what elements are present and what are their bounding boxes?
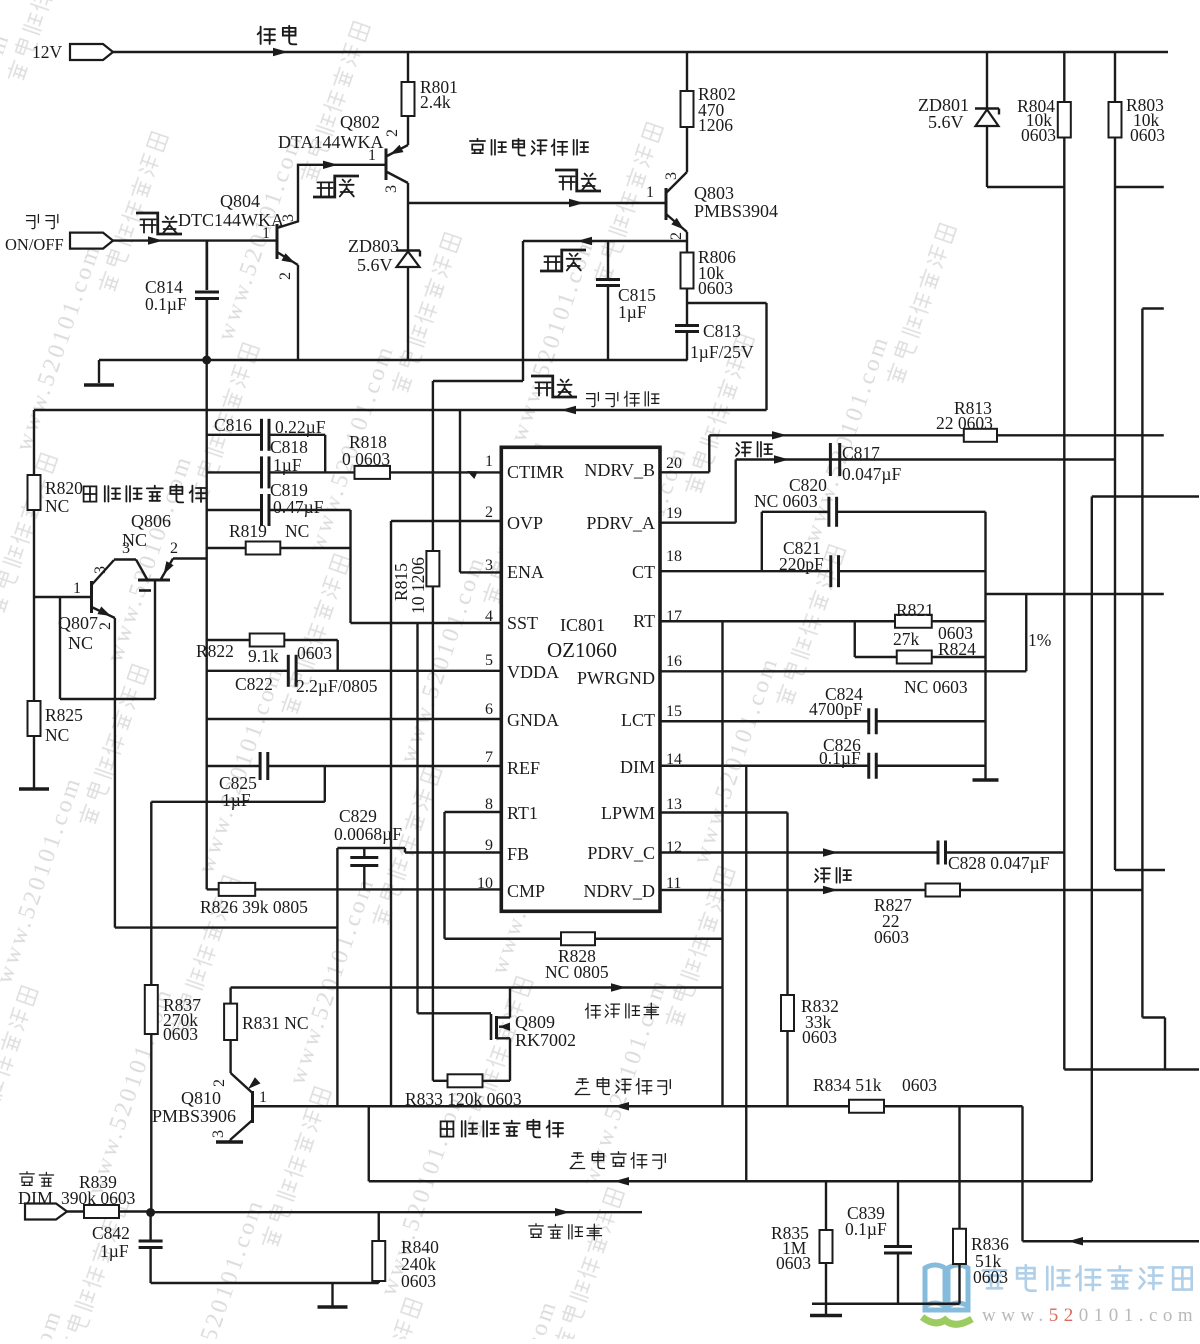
label 自动稳定电路 lower bbox=[441, 1120, 563, 1138]
resistor R832 bbox=[781, 995, 794, 1031]
svg-text:4700pF: 4700pF bbox=[809, 699, 863, 719]
svg-text:LCT: LCT bbox=[621, 710, 655, 730]
svg-text:0.1µF: 0.1µF bbox=[819, 748, 861, 768]
resistor R835 bbox=[825, 1181, 827, 1230]
svg-text:R824: R824 bbox=[938, 639, 976, 659]
svg-text:Q807: Q807 bbox=[58, 613, 98, 633]
label 激励 top bbox=[736, 442, 772, 457]
svg-text:NC: NC bbox=[45, 496, 69, 516]
svg-text:12V: 12V bbox=[32, 42, 63, 62]
wire RT1 pin8 loop bbox=[445, 811, 502, 813]
wire ON/OFF to Q804 base bbox=[112, 239, 277, 241]
svg-text:Q802: Q802 bbox=[340, 112, 380, 132]
node 点灯 ON/OFF input bbox=[27, 215, 58, 229]
svg-text:RT1: RT1 bbox=[507, 803, 538, 823]
svg-text:NC 0805: NC 0805 bbox=[545, 962, 609, 982]
svg-text:2: 2 bbox=[384, 129, 401, 137]
label 过电流保护 bbox=[575, 1078, 670, 1095]
label 自动稳定电路 upper bbox=[84, 485, 206, 503]
resistor R813 bbox=[964, 429, 997, 442]
wire 点灯控制 line bbox=[460, 409, 767, 411]
wire OCP right drop bbox=[1021, 1106, 1023, 1241]
svg-text:10 1206: 10 1206 bbox=[408, 557, 428, 614]
resistor R802 bbox=[686, 52, 688, 172]
wire PDRV_C pin12 bbox=[660, 851, 937, 853]
svg-text:15: 15 bbox=[666, 703, 682, 720]
svg-text:PDRV_A: PDRV_A bbox=[586, 513, 655, 533]
wire SST pin4 bbox=[351, 622, 502, 624]
watermark pattern bbox=[0, 0, 957, 1344]
resistor R833 bbox=[433, 1080, 448, 1082]
svg-text:3: 3 bbox=[122, 540, 130, 557]
wire DIM pin14 bbox=[660, 765, 868, 767]
svg-text:0603: 0603 bbox=[401, 1271, 436, 1291]
wire 振荡调整 line bbox=[231, 986, 723, 988]
svg-text:1µF/25V: 1µF/25V bbox=[690, 342, 754, 362]
ground symbol bottom bbox=[810, 1314, 842, 1318]
svg-text:NC 0603: NC 0603 bbox=[754, 491, 818, 511]
wire 亮度调整 line bbox=[151, 1211, 642, 1213]
resistor R828 bbox=[561, 932, 595, 945]
resistor R840 bbox=[378, 1212, 380, 1241]
wire 12V supply rail bbox=[112, 51, 1168, 53]
wire rail x1115 corner bbox=[1115, 869, 1165, 871]
svg-text:1%: 1% bbox=[1028, 630, 1051, 650]
svg-text:Q803: Q803 bbox=[694, 183, 734, 203]
wire LPWM pin13 drop bbox=[660, 811, 788, 813]
svg-text:NDRV_B: NDRV_B bbox=[584, 460, 655, 480]
wire VDDA pin5 bbox=[207, 670, 287, 672]
svg-text:CT: CT bbox=[632, 562, 655, 582]
svg-text:PWRGND: PWRGND bbox=[577, 668, 655, 688]
svg-text:5.6V: 5.6V bbox=[357, 255, 393, 275]
resistor R834 bbox=[849, 1100, 884, 1113]
svg-text:20: 20 bbox=[666, 455, 682, 472]
svg-text:18: 18 bbox=[666, 548, 682, 565]
svg-text:0.047µF: 0.047µF bbox=[842, 464, 901, 484]
svg-text:PDRV_C: PDRV_C bbox=[587, 843, 655, 863]
wire NDRV_B pin20 bbox=[660, 471, 709, 473]
svg-text:C829: C829 bbox=[339, 806, 377, 826]
svg-text:0603: 0603 bbox=[1021, 125, 1056, 145]
svg-text:22 0603: 22 0603 bbox=[936, 413, 993, 433]
svg-text:1µF: 1µF bbox=[100, 1241, 129, 1261]
svg-text:C822: C822 bbox=[235, 674, 273, 694]
node 亮度 DIM input bbox=[20, 1172, 54, 1186]
wire OVP pin2 drop bbox=[391, 520, 501, 522]
IC U801 box OZ1060 bbox=[501, 447, 660, 911]
wire bottom bus bbox=[812, 1303, 960, 1305]
resistor R804 bbox=[1063, 52, 1065, 1070]
wire bottom-left bus bbox=[151, 1282, 379, 1284]
svg-text:ZD803: ZD803 bbox=[348, 236, 399, 256]
svg-text:C817: C817 bbox=[842, 443, 880, 463]
label 点灯控制 bbox=[587, 391, 659, 406]
wire CT pin18 bbox=[660, 570, 830, 572]
svg-text:R821: R821 bbox=[896, 600, 934, 620]
svg-text:C828 0.047µF: C828 0.047µF bbox=[948, 853, 1050, 873]
svg-text:220pF: 220pF bbox=[779, 554, 824, 574]
svg-text:OZ1060: OZ1060 bbox=[547, 638, 617, 662]
svg-text:3: 3 bbox=[383, 185, 400, 193]
svg-text:1: 1 bbox=[368, 147, 376, 164]
svg-text:R826 39k 0805: R826 39k 0805 bbox=[200, 897, 308, 917]
wire Q807 box bottom bbox=[60, 698, 155, 700]
svg-text:0603: 0603 bbox=[874, 927, 909, 947]
svg-text:R831 NC: R831 NC bbox=[242, 1013, 309, 1033]
wire left rail x207 bbox=[205, 241, 207, 290]
svg-text:R822: R822 bbox=[196, 641, 234, 661]
svg-text:OVP: OVP bbox=[507, 513, 543, 533]
capacitor C828 bbox=[937, 841, 940, 865]
svg-text:Q804: Q804 bbox=[220, 191, 260, 211]
wire rail x1091 bbox=[1092, 495, 1199, 497]
wire R806 to C813 branch bbox=[686, 289, 688, 304]
ground symbol R840 bbox=[331, 1283, 333, 1306]
svg-text:C816: C816 bbox=[214, 415, 252, 435]
svg-text:0603: 0603 bbox=[1130, 125, 1165, 145]
svg-text:Q810: Q810 bbox=[181, 1088, 221, 1108]
svg-text:NC: NC bbox=[68, 633, 93, 653]
svg-text:9.1k: 9.1k bbox=[248, 646, 279, 666]
svg-text:10: 10 bbox=[477, 875, 493, 892]
wire FB pin9 bbox=[405, 851, 501, 853]
resistor R831 bbox=[229, 988, 231, 1004]
wire Q802 collector to Q803 base bbox=[408, 202, 666, 204]
svg-text:3: 3 bbox=[210, 1130, 227, 1138]
svg-text:3: 3 bbox=[280, 214, 297, 222]
svg-text:27k: 27k bbox=[893, 629, 920, 649]
svg-text:R834 51k: R834 51k bbox=[813, 1075, 882, 1095]
svg-text:2: 2 bbox=[211, 1079, 228, 1087]
capacitor C817 bbox=[829, 443, 832, 476]
resistor R827 bbox=[926, 884, 961, 897]
wire GNDA pin6 bbox=[207, 718, 501, 720]
svg-text:1µF: 1µF bbox=[618, 302, 647, 322]
svg-text:3: 3 bbox=[485, 557, 493, 574]
svg-text:0603: 0603 bbox=[973, 1267, 1008, 1287]
wire Q804 collector to Q802 base bbox=[277, 165, 386, 228]
svg-text:RT: RT bbox=[633, 611, 655, 631]
resistor R837 bbox=[150, 802, 152, 985]
svg-text:C818: C818 bbox=[270, 437, 308, 457]
wire RT pin17 bbox=[660, 620, 895, 622]
svg-text:DIM: DIM bbox=[620, 757, 655, 777]
resistor R820 bbox=[33, 410, 35, 475]
svg-text:C813: C813 bbox=[703, 321, 741, 341]
svg-text:2.4k: 2.4k bbox=[420, 92, 451, 112]
svg-text:1: 1 bbox=[259, 1089, 267, 1106]
svg-text:1: 1 bbox=[485, 453, 493, 470]
svg-text:FB: FB bbox=[507, 844, 529, 864]
svg-text:1206: 1206 bbox=[698, 115, 733, 135]
wire right rail corner to edge bbox=[1064, 1068, 1199, 1070]
svg-text:VDDA: VDDA bbox=[507, 662, 559, 682]
svg-text:C842: C842 bbox=[92, 1223, 130, 1243]
svg-text:2: 2 bbox=[668, 232, 685, 240]
label 振荡调整 bbox=[585, 1003, 658, 1019]
svg-text:0.1µF: 0.1µF bbox=[145, 294, 187, 314]
label 开关 falling at 点灯控制 bbox=[535, 380, 571, 397]
svg-text:NDRV_D: NDRV_D bbox=[583, 881, 655, 901]
svg-text:2: 2 bbox=[170, 540, 178, 557]
wire ground rail y360 bbox=[99, 359, 688, 361]
wire right stub y308 bbox=[1142, 307, 1163, 309]
resistor R839 bbox=[67, 1210, 84, 1212]
wire R803 lower stub bbox=[1115, 186, 1164, 188]
svg-text:PMBS3904: PMBS3904 bbox=[694, 201, 778, 221]
svg-text:Q809: Q809 bbox=[515, 1012, 555, 1032]
svg-text:RK7002: RK7002 bbox=[515, 1030, 576, 1050]
svg-text:16: 16 bbox=[666, 653, 682, 670]
svg-text:19: 19 bbox=[666, 505, 682, 522]
ground symbol left-bottom bbox=[19, 787, 49, 791]
svg-text:NC 0603: NC 0603 bbox=[904, 677, 968, 697]
resistor R803 bbox=[1114, 52, 1116, 870]
wire NDRV_D pin11 bbox=[660, 889, 925, 891]
svg-text:7: 7 bbox=[485, 749, 493, 766]
svg-text:Q806: Q806 bbox=[131, 511, 171, 531]
label 开关 falling near input bbox=[140, 217, 176, 234]
svg-text:0603: 0603 bbox=[776, 1253, 811, 1273]
svg-text:6: 6 bbox=[485, 701, 493, 718]
svg-text:2.2µF/0805: 2.2µF/0805 bbox=[296, 676, 378, 696]
logo 家电维修资料网 blue bbox=[983, 1265, 1192, 1291]
svg-text:0.1µF: 0.1µF bbox=[845, 1219, 887, 1239]
svg-text:SST: SST bbox=[507, 613, 538, 633]
wire right bus vert x985 bbox=[984, 512, 986, 779]
wire switched supply y241 bbox=[523, 240, 687, 242]
label 激励 bottom bbox=[815, 868, 851, 883]
svg-text:5.6V: 5.6V bbox=[928, 112, 964, 132]
wire y410 to ENA bbox=[34, 409, 460, 411]
label 开关 rising near Q802 bbox=[317, 180, 353, 197]
svg-text:REF: REF bbox=[507, 758, 540, 778]
svg-text:LPWM: LPWM bbox=[601, 803, 655, 823]
label 过电压保护 bbox=[570, 1152, 665, 1169]
wire RT long drop bbox=[721, 621, 723, 1106]
resistor R815 with feed bbox=[433, 380, 523, 382]
svg-text:IC801: IC801 bbox=[560, 615, 605, 635]
svg-text:2: 2 bbox=[485, 504, 493, 521]
svg-text:0603: 0603 bbox=[163, 1024, 198, 1044]
svg-text:9: 9 bbox=[485, 837, 493, 854]
resistor R826 on CMP bbox=[207, 888, 219, 890]
svg-text:8: 8 bbox=[485, 796, 493, 813]
wire LCT pin15 bbox=[660, 720, 868, 722]
svg-text:13: 13 bbox=[666, 796, 682, 813]
svg-text:2: 2 bbox=[277, 272, 294, 280]
svg-text:ENA: ENA bbox=[507, 562, 544, 582]
label 供电 bbox=[258, 26, 297, 44]
label 启动电源控制 bbox=[470, 139, 588, 156]
wire 过电压保护 line bbox=[369, 1180, 1092, 1182]
ground symbol x985 bbox=[973, 778, 999, 782]
resistor R801 bbox=[407, 52, 409, 145]
svg-text:PMBS3906: PMBS3906 bbox=[152, 1106, 236, 1126]
svg-text:NC: NC bbox=[285, 521, 309, 541]
svg-text:GNDA: GNDA bbox=[507, 710, 559, 730]
svg-text:0603: 0603 bbox=[802, 1027, 837, 1047]
wire R813 drive line bbox=[709, 434, 1164, 436]
svg-text:1µF: 1µF bbox=[222, 790, 251, 810]
svg-text:CMP: CMP bbox=[507, 881, 545, 901]
svg-text:1: 1 bbox=[646, 184, 654, 201]
junction ground node bbox=[202, 356, 211, 365]
svg-text:R825: R825 bbox=[45, 705, 83, 725]
svg-text:2: 2 bbox=[97, 622, 114, 630]
svg-text:ON/OFF: ON/OFF bbox=[5, 235, 64, 254]
label 开关 rising at C815 bbox=[544, 254, 580, 271]
wire PDRV_A pin19 bbox=[660, 522, 736, 524]
svg-text:NC: NC bbox=[45, 725, 69, 745]
wire Q807 base bbox=[34, 596, 92, 598]
svg-text:0603: 0603 bbox=[902, 1075, 937, 1095]
ground symbol Q810 bbox=[216, 1140, 243, 1144]
label 开关 falling mid bbox=[559, 174, 595, 191]
resistor R821 bbox=[895, 615, 932, 628]
svg-text:3: 3 bbox=[663, 172, 680, 180]
resistor R806 bbox=[681, 253, 694, 289]
label 亮度调整 bbox=[529, 1224, 602, 1240]
wire REF tee down to R837 line bbox=[324, 766, 326, 802]
svg-text:4: 4 bbox=[485, 608, 493, 625]
svg-text:5: 5 bbox=[485, 652, 493, 669]
junction DIM node bbox=[146, 1208, 155, 1217]
wire y594 branch bbox=[986, 593, 1164, 595]
svg-text:CTIMR: CTIMR bbox=[507, 462, 564, 482]
svg-text:0603: 0603 bbox=[698, 278, 733, 298]
wire Q807 emitter long drop bbox=[114, 699, 116, 928]
svg-text:0.47µF: 0.47µF bbox=[273, 497, 324, 517]
svg-text:R820: R820 bbox=[45, 478, 83, 498]
wire PWRGND pin16 bbox=[660, 670, 1026, 672]
resistor R825 bbox=[28, 701, 41, 736]
ground symbol left-top bbox=[84, 383, 114, 387]
svg-text:0603: 0603 bbox=[297, 643, 332, 663]
svg-text:1: 1 bbox=[73, 580, 81, 597]
svg-text:www.520101.com: www.520101.com bbox=[982, 1305, 1198, 1326]
resistor R836 bbox=[958, 1106, 960, 1229]
logo book icon bbox=[925, 1265, 968, 1310]
wire 过电流保护 line bbox=[253, 1105, 1023, 1107]
svg-text:R819: R819 bbox=[229, 521, 267, 541]
resistor R824 bbox=[854, 621, 856, 657]
wire rail x1142 bottom jog bbox=[1142, 1016, 1165, 1018]
wire C817 line bbox=[736, 458, 1115, 460]
